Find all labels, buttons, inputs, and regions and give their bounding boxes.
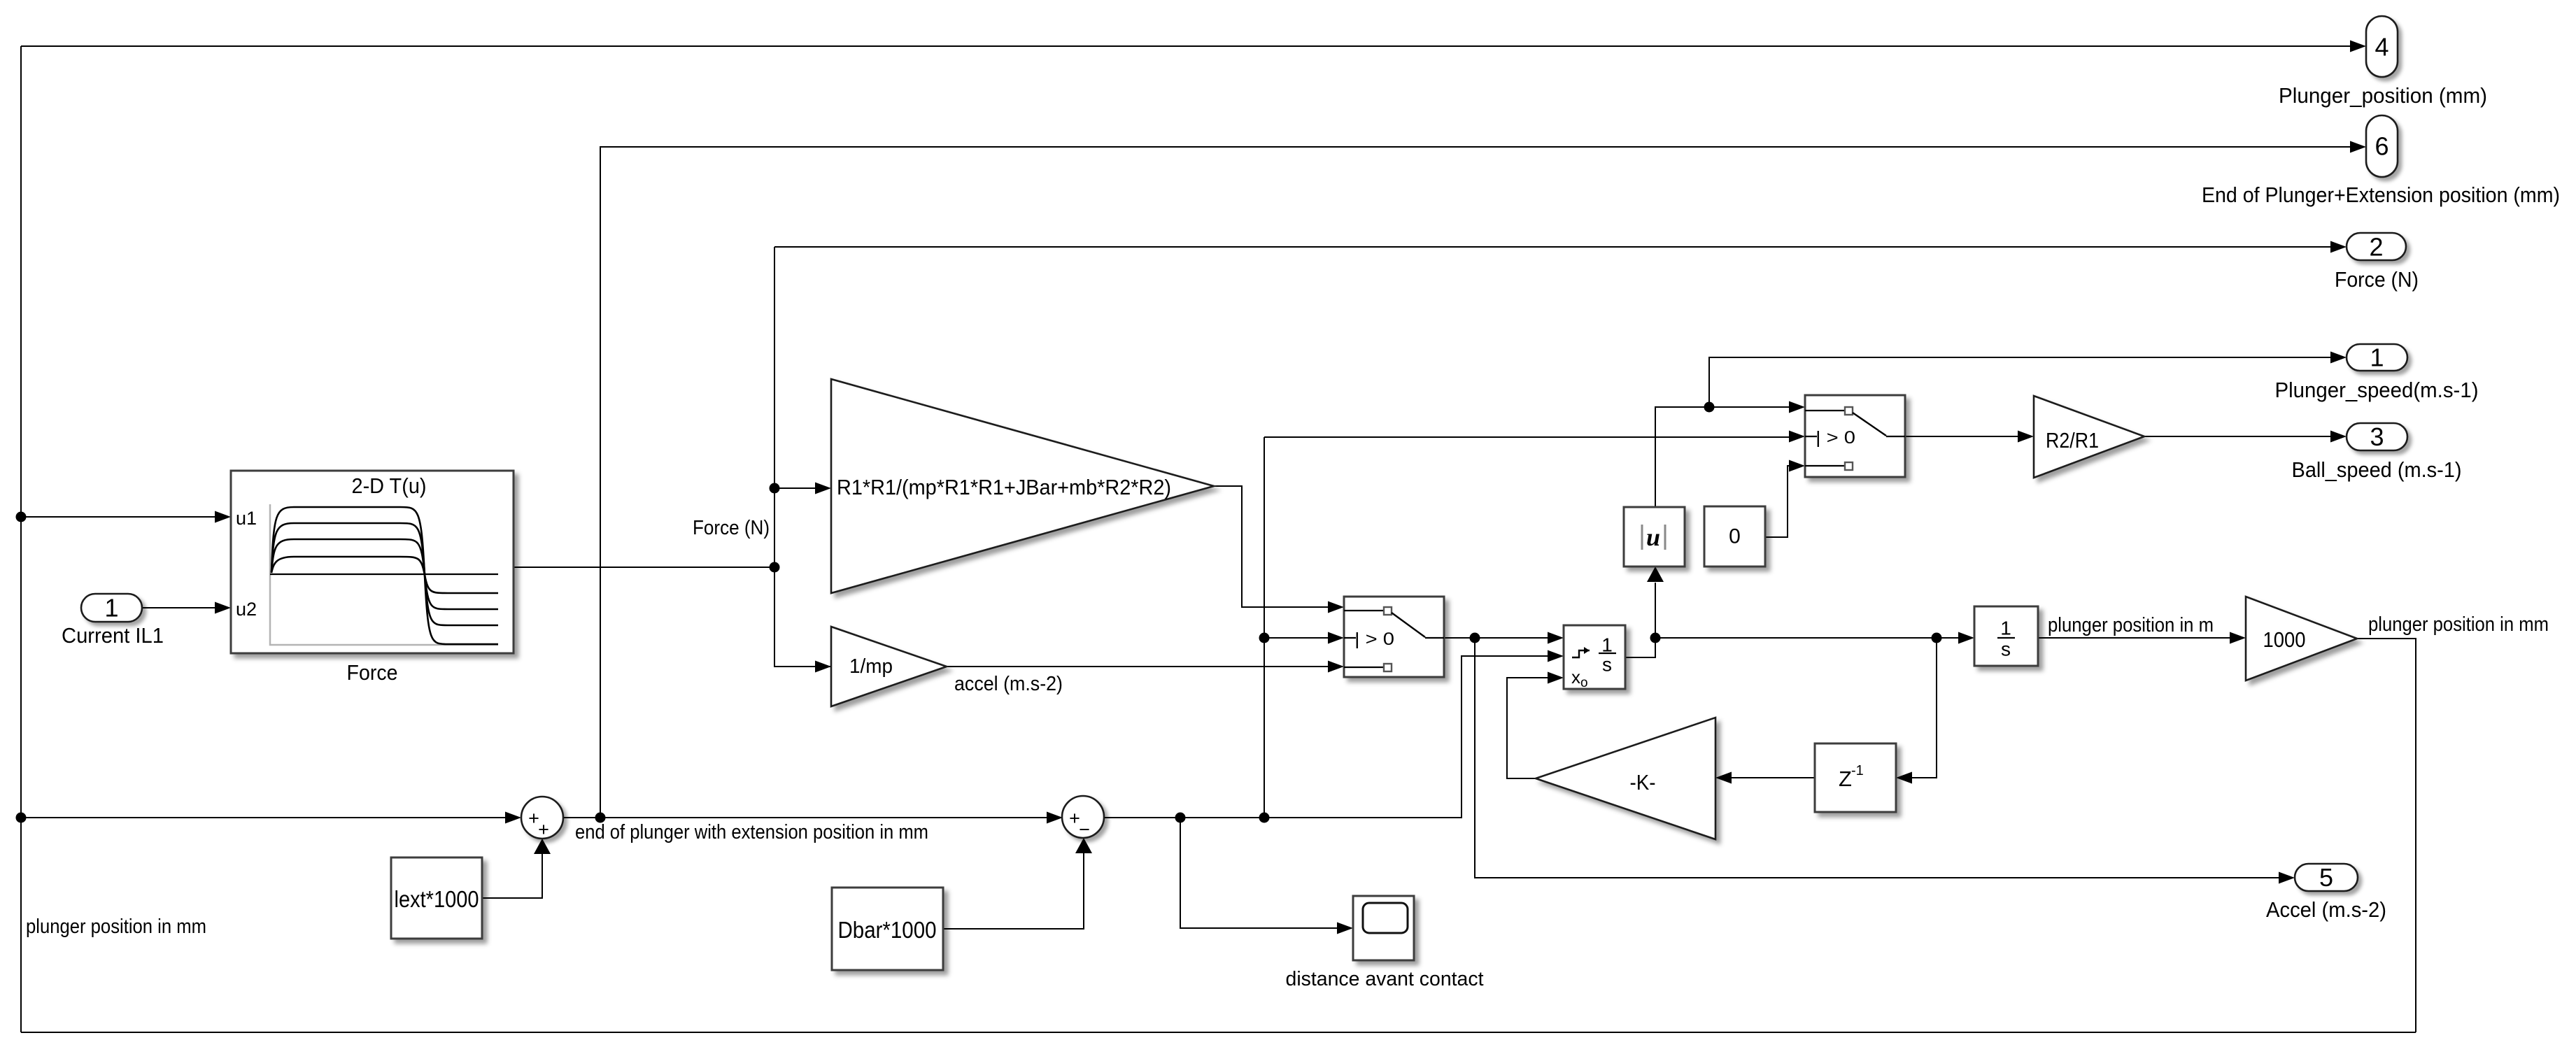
wire: gain R2/R1 output to outport 3 (2144, 436, 2330, 437)
svg-text:Ball_speed (m.s-1): Ball_speed (m.s-1) (2292, 457, 2462, 482)
wire: integrator output (1625, 638, 1655, 657)
gain 1000 (2246, 597, 2357, 681)
svg-text:2-D T(u): 2-D T(u) (352, 473, 427, 498)
wire: feedback loop left rail (20, 46, 22, 1032)
svg-text:plunger position in mm: plunger position in mm (26, 916, 206, 938)
svg-text:s: s (1602, 654, 1612, 676)
svg-text:Force (N): Force (N) (2335, 267, 2419, 292)
junction: control to switch SW1 (1259, 633, 1270, 643)
svg-text:0: 0 (1729, 525, 1741, 548)
wire: branch up to outport 6 (600, 147, 2350, 818)
switch SW2 (1805, 395, 1905, 477)
svg-text:accel (m.s-2): accel (m.s-2) (954, 673, 1063, 695)
wire: inport 1 to lookup u2 (142, 607, 215, 608)
constant 0 (1704, 506, 1765, 567)
svg-text:end of plunger with extension: end of plunger with extension position i… (575, 821, 928, 843)
svg-text:Accel (m.s-2): Accel (m.s-2) (2266, 897, 2386, 922)
wire: constant Dbar*1000 to sum S2 (943, 851, 1084, 929)
gain -K- (flipped) (1536, 718, 1715, 839)
svg-text:Plunger_speed(m.s-1): Plunger_speed(m.s-1) (2275, 378, 2479, 402)
svg-text:−: − (1079, 819, 1090, 840)
outport 5 Accel (2266, 863, 2386, 922)
wire: sum S1 output (end of plunger with extension) (563, 817, 1047, 818)
gain R1*R1/(mp*R1*R1+JBar+mb*R2*R2) (831, 379, 1214, 593)
wire: branch up to abs block (1655, 583, 1656, 638)
svg-text:plunger position in mm: plunger position in mm (2368, 613, 2549, 636)
svg-text:s: s (2001, 639, 2011, 660)
svg-text:o: o (1580, 676, 1588, 690)
wire: gain R1R1 output to switch SW1 input 1 (1214, 486, 1329, 607)
constant lext*1000 (391, 857, 482, 939)
wire: left rail to sum S1 input (21, 817, 505, 818)
svg-text:1: 1 (2370, 343, 2384, 372)
sum S2 (+ -) (1062, 796, 1104, 840)
svg-text:-1: -1 (1851, 763, 1864, 778)
wire: lookup output (Force) (514, 567, 774, 568)
wire: top feedback to outport 4 (21, 45, 2350, 47)
svg-text:+: + (538, 819, 549, 840)
svg-text:Current IL1: Current IL1 (62, 623, 164, 648)
wire: control vertical (position > 0) (1264, 437, 1265, 818)
svg-text:Force: Force (347, 660, 398, 685)
unit delay Z-1 (1815, 743, 1896, 812)
junction: control tap on sum S2 output (1259, 813, 1270, 823)
junction: scope branch (1175, 813, 1186, 823)
gain R2/R1 (2034, 396, 2144, 478)
svg-text:Plunger_position (mm): Plunger_position (mm) (2279, 83, 2487, 108)
svg-text:1: 1 (1601, 634, 1613, 656)
constant Dbar*1000 (832, 888, 943, 970)
junction: force to big gain (770, 483, 780, 494)
svg-text:R1*R1/(mp*R1*R1+JBar+mb*R2*R2): R1*R1/(mp*R1*R1+JBar+mb*R2*R2) (837, 475, 1171, 499)
svg-text:Force (N): Force (N) (693, 517, 770, 539)
wire: switch SW1 output to integrator input (1444, 637, 1548, 639)
switch SW1 (1344, 597, 1444, 677)
junction: 1/s input to unit delay branch (1932, 633, 1942, 643)
outport 6 End of Plunger+Extension (2202, 115, 2560, 207)
junction: left rail to sum S1 (16, 813, 27, 823)
wire: right feedback rail from gain 1000 (2357, 639, 2416, 1032)
wire: constant 0 to switch SW2 input 3 (1765, 466, 1791, 537)
wire: abs output up and right to switch SW2 input 1 (1655, 407, 1789, 507)
svg-text:-K-: -K- (1630, 770, 1656, 795)
svg-text:3: 3 (2370, 422, 2384, 451)
svg-text:Z: Z (1839, 767, 1852, 791)
gain 1/mp (831, 627, 947, 706)
svg-text:plunger position in m: plunger position in m (2048, 614, 2214, 636)
wire: branch down to unit delay Z-1 (1912, 638, 1937, 778)
svg-text:1: 1 (104, 594, 118, 622)
wire: accel branch to outport 5 (1475, 638, 2279, 878)
outport 4 Plunger_position (2279, 16, 2487, 108)
wire: left rail to lookup u1 (21, 516, 215, 518)
wire: unit delay output to gain -K- (1732, 777, 1815, 778)
abs |u| (1624, 507, 1685, 567)
inport 1 Current IL1 (62, 594, 164, 648)
junction: lookup output joins vertical (770, 562, 780, 573)
svg-text:distance avant contact: distance avant contact (1286, 968, 1484, 990)
svg-text:1000: 1000 (2263, 627, 2306, 652)
outport 3 Ball_speed (2292, 422, 2462, 482)
svg-text:R2/R1: R2/R1 (2046, 428, 2099, 453)
integrator 1/s with reset and x0 (1564, 625, 1625, 690)
svg-text:| > 0: | > 0 (1354, 629, 1394, 649)
svg-text:5: 5 (2319, 863, 2333, 892)
svg-text:End of Plunger+Extension posit: End of Plunger+Extension position (mm) (2202, 183, 2560, 207)
2-D lookup table Force (231, 471, 514, 685)
junction: abs output to outport 1 branch (1704, 402, 1715, 413)
svg-text:x: x (1571, 667, 1580, 688)
wire: control to switch SW2 input 2 (1264, 436, 1789, 438)
wire: gain 1/mp output (accel) to switch SW1 input 3 (947, 666, 1329, 667)
svg-text:1/mp: 1/mp (849, 655, 893, 678)
scope distance avant contact (1286, 896, 1484, 990)
svg-text:1: 1 (2000, 618, 2011, 639)
wire: sum S2 output to integrator reset (1104, 656, 1548, 818)
wire: Force (N) to outport 2 (774, 246, 2330, 248)
wire: switch SW2 output to gain R2/R1 (1905, 436, 2018, 437)
svg-text:6: 6 (2375, 132, 2389, 161)
svg-text:u: u (1646, 523, 1660, 551)
junction: sum S1 output to outport 6 branch (595, 813, 606, 823)
svg-text:u1: u1 (236, 508, 257, 529)
wire: control to switch SW1 input 2 (1264, 637, 1329, 639)
wire: branch down to scope (1180, 818, 1337, 928)
wire: 1/s output to gain 1000 (2038, 637, 2230, 639)
wire: bottom feedback rail (21, 1032, 2416, 1033)
wire: integrator output to 1/s (1655, 637, 1958, 639)
sum S1 (+ +) (521, 797, 563, 840)
outport 1 Plunger_speed (2275, 343, 2479, 403)
svg-text:2: 2 (2369, 233, 2383, 262)
svg-text:lext*1000: lext*1000 (395, 886, 479, 912)
svg-text:4: 4 (2375, 33, 2389, 62)
junction: left rail to u1 (16, 512, 27, 522)
junction: integrator output branch (1650, 633, 1661, 643)
svg-text:| > 0: | > 0 (1816, 428, 1855, 448)
wire: force to gain R1R1 input (774, 487, 815, 489)
wire: constant lext*1000 to sum S1 (482, 852, 542, 898)
wire: force distribution vertical (774, 247, 831, 667)
svg-text:Dbar*1000: Dbar*1000 (838, 917, 937, 943)
outport 2 Force (N) (2335, 233, 2419, 292)
wire: gain -K- output to integrator x0 (1507, 678, 1548, 778)
junction: accel output branch (1470, 633, 1480, 643)
integrator 1/s (position) (1974, 606, 2038, 666)
wire: branch to outport 1 Plunger_speed (1709, 357, 2330, 407)
svg-text:u2: u2 (236, 599, 257, 620)
